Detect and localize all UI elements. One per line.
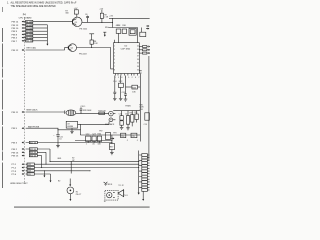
resistor R33 <box>126 85 141 93</box>
lamp DS1 stem <box>58 179 71 187</box>
component rail line <box>109 27 138 29</box>
svg-text:GND: GND <box>57 158 62 160</box>
pin row PIN9 <box>12 30 48 33</box>
jack J2 lower <box>109 118 115 122</box>
svg-text:TP3: TP3 <box>113 133 116 135</box>
svg-text:PILOT: PILOT <box>76 194 82 196</box>
pin row PT2 <box>12 166 140 169</box>
capacitor C20 <box>80 106 86 114</box>
label C16 R30 <box>116 25 126 27</box>
bottom rule <box>14 206 150 208</box>
svg-text:PIN 11: PIN 11 <box>12 112 19 114</box>
svg-text:C16: C16 <box>116 25 119 27</box>
arrows to right edge <box>146 25 149 29</box>
wire mic to jack <box>76 112 109 114</box>
label under cone <box>124 195 128 197</box>
ground under C15 <box>124 99 128 101</box>
svg-text:PN 2222: PN 2222 <box>79 28 88 30</box>
svg-text:R28: R28 <box>27 171 30 173</box>
svg-text:35: 35 <box>137 63 139 65</box>
svg-text:40: 40 <box>137 46 139 48</box>
IC bottom pins <box>115 74 141 80</box>
label TP1 <box>125 105 128 107</box>
microphone MK1 <box>65 110 76 116</box>
svg-text:PT-4: PT-4 <box>12 174 17 176</box>
bus vertical from pin rows <box>46 25 48 46</box>
svg-text:R3 10K: R3 10K <box>26 28 33 30</box>
net label REV DIAL <box>27 46 37 49</box>
node stub PT3 <box>43 170 45 177</box>
node lamp feed <box>71 158 76 174</box>
svg-text:ALL RESISTORS ARE IN OHMS UNLE: ALL RESISTORS ARE IN OHMS UNLESS NOTED, … <box>11 2 77 5</box>
capacitor C13 <box>135 111 138 123</box>
wire U3 lower bus <box>58 129 81 130</box>
audio line lower <box>80 134 140 136</box>
wire below IC right <box>139 74 141 142</box>
svg-text:TP2: TP2 <box>99 131 102 133</box>
pin row PIN4 <box>12 36 48 39</box>
svg-text:U3: U3 <box>67 123 69 125</box>
note text line 1 <box>7 2 77 5</box>
svg-text:R4 10K: R4 10K <box>26 31 33 33</box>
pin row PIN8 <box>12 33 48 36</box>
svg-text:38: 38 <box>137 52 139 54</box>
resistor R38 right <box>140 28 146 37</box>
svg-text:R26: R26 <box>27 164 30 166</box>
svg-text:10K: 10K <box>132 91 136 93</box>
bus line mid A <box>75 140 112 141</box>
svg-text:PIN 5: PIN 5 <box>12 128 18 130</box>
resistor R31 <box>122 29 126 33</box>
jack J2 upper <box>109 111 116 116</box>
svg-text:C23: C23 <box>92 133 95 135</box>
right column labels <box>139 104 144 111</box>
ground under U3 <box>70 128 74 134</box>
pin row PIN7 <box>12 40 48 43</box>
svg-text:.1: .1 <box>136 140 138 142</box>
+5V label above R7 <box>74 8 78 10</box>
svg-text:R28 100K: R28 100K <box>83 110 92 112</box>
svg-text:R11 10K: R11 10K <box>26 41 34 43</box>
speaker cone <box>118 190 124 197</box>
svg-text:PT-2: PT-2 <box>12 168 17 170</box>
svg-text:.1: .1 <box>126 140 128 142</box>
svg-text:R22 1K: R22 1K <box>30 149 37 151</box>
svg-text:C6: C6 <box>85 14 87 16</box>
svg-text:34: 34 <box>137 66 139 68</box>
capacitor C23 <box>92 136 96 143</box>
amplifier U3 <box>66 121 77 128</box>
svg-text:PIN 10: PIN 10 <box>12 28 19 30</box>
svg-text:R1 10K: R1 10K <box>26 21 33 23</box>
svg-text:10: 10 <box>59 138 61 140</box>
resistor R7 <box>65 9 78 17</box>
svg-text:2.2K: 2.2K <box>94 43 99 45</box>
pin row PIN11 <box>12 111 65 114</box>
speaker LS1 <box>105 190 118 200</box>
svg-text:Q1: Q1 <box>75 22 79 24</box>
resistor R9 <box>100 10 109 23</box>
svg-text:C19: C19 <box>144 124 147 126</box>
label SPKR <box>105 184 112 186</box>
left page edge <box>2 28 4 188</box>
pin row PT3 <box>12 170 91 173</box>
label TO J2 <box>118 185 123 187</box>
capacitor C22 <box>86 136 91 143</box>
pin row PIN14 <box>12 20 73 23</box>
svg-text:+5V: +5V <box>99 8 103 10</box>
svg-text:R37: R37 <box>110 147 113 149</box>
bottom tiny text <box>104 201 106 203</box>
right side bus <box>148 56 150 160</box>
label Q2 PN2222 <box>79 53 88 55</box>
pin row PIN5 <box>12 126 59 131</box>
wire Q2 collector <box>77 47 111 48</box>
svg-text:C24: C24 <box>121 136 124 138</box>
pin row PIN12 <box>12 48 69 52</box>
+5V label above R9 <box>99 8 103 10</box>
svg-text:4 3 8 1 5 2 6 7: 4 3 8 1 5 2 6 7 <box>115 77 141 79</box>
label R29 <box>98 110 106 112</box>
net label row <box>57 158 62 160</box>
node drop 1 <box>50 149 51 162</box>
rail drop <box>112 18 113 27</box>
resistor R36 <box>144 113 150 126</box>
svg-text:U2: U2 <box>124 45 128 47</box>
wire Q1 collector to right <box>82 21 113 23</box>
svg-text:3: 3 <box>114 52 115 54</box>
capacitor C16 <box>116 29 121 33</box>
svg-text:R6 10K: R6 10K <box>26 37 33 39</box>
value labels filter trio <box>86 144 102 146</box>
node drop 3 <box>41 156 42 168</box>
capacitor C24 <box>121 133 128 142</box>
svg-text:C25: C25 <box>131 136 134 138</box>
svg-text:+: + <box>53 135 55 137</box>
label P4 <box>23 13 27 16</box>
svg-text:P4: P4 <box>23 13 27 16</box>
svg-text:PIN 8: PIN 8 <box>12 34 18 36</box>
svg-text:39: 39 <box>137 49 139 51</box>
svg-text:PIN 16: PIN 16 <box>12 152 19 154</box>
capacitor C12 <box>126 111 130 130</box>
connector J3 vertical <box>138 151 140 195</box>
svg-text:.05: .05 <box>92 144 95 146</box>
capacitor C15 <box>122 76 127 100</box>
svg-text:PIN 4: PIN 4 <box>12 38 18 40</box>
transistor Q2 <box>68 44 76 52</box>
filter bank labels <box>119 112 138 116</box>
connector pin arrow <box>142 191 144 201</box>
svg-text:PIN 13: PIN 13 <box>12 25 19 27</box>
svg-text:LM386: LM386 <box>67 126 73 128</box>
svg-text:PN 2222: PN 2222 <box>79 53 88 55</box>
crystal Y1 <box>129 28 138 43</box>
note text line 2 <box>11 5 57 8</box>
wire U3 out down <box>80 124 81 135</box>
IC right pin 3 to edge <box>139 52 149 54</box>
bus line B1 <box>50 161 139 162</box>
pin row PIN2 <box>12 148 51 151</box>
svg-text:TO J2: TO J2 <box>118 185 123 187</box>
label R10 <box>105 25 121 29</box>
svg-text:REV DIAL: REV DIAL <box>27 46 37 49</box>
svg-text:1: 1 <box>86 144 87 146</box>
svg-text:10K: 10K <box>98 144 102 146</box>
svg-text:R24 1K: R24 1K <box>30 155 37 157</box>
svg-text:PT-3: PT-3 <box>12 171 17 173</box>
svg-text:PIN 2: PIN 2 <box>12 149 18 151</box>
svg-text:8: 8 <box>114 69 115 71</box>
svg-text:R27: R27 <box>27 167 30 169</box>
svg-text:TL 8: TL 8 <box>124 195 128 197</box>
resistor R37 <box>109 135 114 153</box>
pin row PT4 <box>12 173 51 176</box>
svg-text:10: 10 <box>104 201 106 203</box>
svg-text:CDP 1802: CDP 1802 <box>121 48 131 50</box>
resistor R29 <box>99 112 105 114</box>
svg-text:PIN 15: PIN 15 <box>12 156 19 158</box>
connector P4 dashed boundary <box>23 19 25 185</box>
IC right pin 2 to edge <box>139 49 149 51</box>
svg-text:6: 6 <box>114 63 115 65</box>
connector J3 pins <box>139 154 150 192</box>
svg-text:PIN 14: PIN 14 <box>12 22 19 24</box>
svg-text:R25: R25 <box>27 174 30 176</box>
wires to speaker <box>104 182 108 186</box>
svg-text:C11: C11 <box>119 114 122 116</box>
label MIKE JACK <box>27 108 39 111</box>
IC top tick <box>114 40 116 43</box>
ground under C21 <box>56 146 60 148</box>
pin row PIN15 <box>12 154 42 157</box>
label E1 PILOT <box>76 191 82 195</box>
lamp DS1 <box>67 187 74 201</box>
svg-text:PIN 12: PIN 12 <box>12 50 19 52</box>
svg-text:4: 4 <box>114 56 115 58</box>
svg-text:1.: 1. <box>7 2 9 5</box>
svg-text:7: 7 <box>114 66 115 68</box>
+5V label mid <box>127 106 131 108</box>
IC right lower pins <box>139 71 141 73</box>
svg-text:Q2: Q2 <box>70 48 74 50</box>
svg-text:5: 5 <box>114 59 115 61</box>
svg-text:R10: R10 <box>105 27 108 29</box>
label EAR JACK <box>105 123 115 126</box>
svg-text:37: 37 <box>137 56 139 58</box>
svg-text:36: 36 <box>137 59 139 61</box>
svg-text:R2 10K: R2 10K <box>26 25 33 27</box>
wire Q2 to IC pin <box>111 48 114 69</box>
wire U3 to jack <box>78 122 110 125</box>
label Q1 PN2222 <box>79 28 88 30</box>
capacitor C21 <box>53 130 62 146</box>
resistor R35 <box>131 111 134 127</box>
svg-text:C22: C22 <box>86 133 89 135</box>
pin row PIN13 <box>12 24 48 27</box>
svg-text:R30: R30 <box>122 25 125 27</box>
svg-text:CPU BOARD: CPU BOARD <box>19 16 32 19</box>
svg-text:+5V: +5V <box>127 106 131 108</box>
power stub T <box>103 32 106 37</box>
box U5 <box>106 133 115 140</box>
svg-text:PIN 9: PIN 9 <box>12 31 18 33</box>
capacitor C14 <box>113 76 116 99</box>
node drop PT4 <box>50 174 52 182</box>
ground under R32 <box>119 99 123 101</box>
ground under R37 <box>110 153 114 155</box>
svg-text:PIN 7: PIN 7 <box>12 41 18 43</box>
svg-text:PIN 3: PIN 3 <box>12 143 18 145</box>
svg-text:R23 1K: R23 1K <box>30 152 37 154</box>
svg-text:PT-1: PT-1 <box>12 164 17 166</box>
label TP2 TP3 <box>99 131 116 135</box>
resistor R32 <box>119 76 124 99</box>
svg-text:R34: R34 <box>98 133 101 135</box>
capacitor C25 <box>131 133 138 142</box>
label R28 <box>83 110 92 112</box>
svg-text:1: 1 <box>114 46 115 48</box>
svg-text:2.2K: 2.2K <box>104 17 109 19</box>
resistor R8 <box>89 34 98 48</box>
C16 lead to IC <box>118 33 120 42</box>
svg-text:THE SPEAKER AND MIKE ARE MOUNT: THE SPEAKER AND MIKE ARE MOUNTED <box>11 5 57 8</box>
pin row PIN3 <box>12 141 113 144</box>
svg-text:R33: R33 <box>132 87 135 89</box>
label WIRE SIDE P/SKT <box>10 183 28 185</box>
svg-text:WIRE SIDE P/SKT: WIRE SIDE P/SKT <box>10 183 28 185</box>
pin row PIN10 <box>12 27 48 30</box>
svg-text:SPKR 8: SPKR 8 <box>105 184 112 186</box>
label C14 R32 <box>113 81 122 83</box>
resistor R34 <box>97 136 101 143</box>
svg-text:R5 10K: R5 10K <box>26 34 33 36</box>
svg-text:E2: E2 <box>58 181 60 183</box>
capacitor C11 <box>120 111 124 130</box>
node drop 2 <box>46 152 47 164</box>
svg-text:33: 33 <box>137 69 139 71</box>
+5V rail <box>109 16 150 19</box>
svg-text:+5V: +5V <box>109 16 113 18</box>
pin row PT1 <box>12 163 140 166</box>
IC U2 <box>114 43 140 74</box>
ground under C14 <box>113 99 117 101</box>
label C22 C23 R34 <box>86 133 101 135</box>
transistor Q1 <box>72 17 82 26</box>
label CPU BOARD <box>19 16 32 19</box>
svg-text:300: 300 <box>65 12 68 14</box>
svg-text:2: 2 <box>114 49 115 51</box>
wire filter top <box>113 110 140 112</box>
pin row PIN16 <box>12 151 47 154</box>
svg-text:MIKE JACK: MIKE JACK <box>27 108 39 111</box>
svg-text:R21 1K: R21 1K <box>30 142 37 144</box>
IC right pin 1 to edge <box>139 46 149 48</box>
capacitor C6 <box>85 14 89 22</box>
